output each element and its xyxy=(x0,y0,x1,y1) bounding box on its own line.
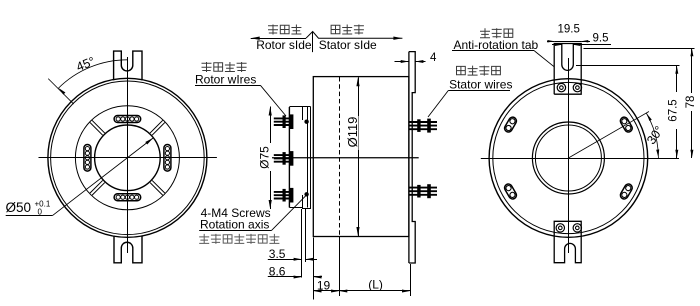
stator hole at 330&#176; xyxy=(619,183,634,201)
svg-text:3.5: 3.5 xyxy=(269,247,286,261)
hidden dashed line (rotation axis boundary) xyxy=(339,77,341,236)
dimension 67.5 xyxy=(666,66,679,159)
anti-rotation tab top (right view) xyxy=(554,44,581,95)
svg-text:Rotation axis: Rotation axis xyxy=(200,217,269,231)
M4 screw hole dot upper xyxy=(304,120,308,124)
rotor flange plate xyxy=(289,107,311,209)
center hole inner circle xyxy=(535,125,601,191)
dimension Ø50 +0.1/0 xyxy=(6,138,154,217)
anti-rotation tab bottom (right view) xyxy=(554,221,581,262)
svg-text:67.5: 67.5 xyxy=(667,99,679,121)
svg-text:Ø50: Ø50 xyxy=(6,200,32,215)
dimension 19.5 xyxy=(547,24,590,43)
dimension 9.5 xyxy=(552,33,611,47)
anti-rotation fork tab bottom (left view) xyxy=(114,235,142,262)
wire slot N (rotor) xyxy=(114,116,141,123)
centerline vertical (right view) xyxy=(568,58,570,253)
svg-text:(L): (L) xyxy=(368,277,383,291)
left view: rotor end view xyxy=(39,57,217,253)
centerline vertical (left view) xyxy=(127,57,129,253)
extension lines bottom xyxy=(302,209,411,300)
spokes at 45 degrees xyxy=(90,120,165,195)
svg-text:78: 78 xyxy=(685,96,697,109)
stator hole at 30&#176; xyxy=(619,116,634,134)
stator hole at 150&#176; xyxy=(503,116,518,134)
svg-text:Ø75: Ø75 xyxy=(258,146,272,169)
wire slot S (rotor) xyxy=(114,194,141,201)
dimension 4 (plate thickness) xyxy=(395,52,438,64)
dimension 30 degrees xyxy=(568,112,666,159)
flange inner edge circle xyxy=(51,81,205,235)
svg-text:9.5: 9.5 xyxy=(593,33,609,45)
dimension 45 degrees xyxy=(48,54,127,104)
anti-rotation fork tab top (left view) xyxy=(114,51,142,80)
svg-text:Anti-rotation tab: Anti-rotation tab xyxy=(454,38,539,52)
wire slot W (rotor) xyxy=(84,145,91,172)
dimension 8.6 xyxy=(268,265,322,279)
svg-text:Rotor sIde: Rotor sIde xyxy=(256,38,312,52)
label rotor side xyxy=(256,25,312,53)
dimension Ø75 xyxy=(258,107,272,210)
svg-text:Ø119: Ø119 xyxy=(345,117,360,148)
dimension 78 xyxy=(684,48,697,158)
svg-text:Stator wires: Stator wires xyxy=(449,78,512,92)
stator plate inner edge circle xyxy=(493,82,644,233)
svg-text:4: 4 xyxy=(430,52,437,64)
flange outer circle Ø119 xyxy=(48,78,207,237)
label anti-rotation tab xyxy=(452,28,554,67)
stator hole at 210&#176; xyxy=(503,183,518,201)
wire slot E (rotor) xyxy=(164,145,171,172)
label stator side xyxy=(319,25,377,53)
rotor/stator divider tick xyxy=(312,32,314,53)
rotor/stator side arrow line xyxy=(251,32,403,53)
rotor wire bundle 2 xyxy=(274,151,294,166)
right view: stator end view xyxy=(481,58,679,253)
stator body rectangle xyxy=(313,77,409,237)
dimension 3.5 xyxy=(268,247,317,261)
dimension 19 and (L) xyxy=(313,277,410,292)
bore circle Ø50 xyxy=(95,125,161,191)
label rotor wires xyxy=(195,62,286,116)
dimension Ø119 xyxy=(345,77,360,236)
svg-text:19: 19 xyxy=(317,278,331,292)
centerline horizontal (left view) xyxy=(39,157,217,159)
svg-text:19.5: 19.5 xyxy=(558,24,580,36)
centerline horizontal (right view) xyxy=(481,158,679,160)
stator wire bundle 1 xyxy=(410,119,438,133)
stator wire bundle 2 xyxy=(410,184,438,198)
center hole outer circle xyxy=(532,122,604,194)
extension lines right side xyxy=(576,49,695,66)
label 4-M4 screws rotation axis xyxy=(199,195,306,244)
rotor wire bundle 3 xyxy=(274,188,294,203)
label stator wires xyxy=(428,66,512,117)
svg-text:Stator sIde: Stator sIde xyxy=(319,38,377,52)
centerline horizontal (middle view) xyxy=(272,157,419,159)
rotor body circle Ø75 xyxy=(75,106,179,210)
M4 screw hole dot lower xyxy=(304,192,308,196)
rotor wire bundle 1 xyxy=(274,114,294,129)
svg-text:Rotor wIres: Rotor wIres xyxy=(195,73,256,87)
stator mounting plate xyxy=(409,52,415,263)
stator plate outer circle xyxy=(489,79,648,238)
